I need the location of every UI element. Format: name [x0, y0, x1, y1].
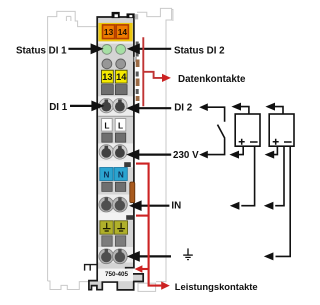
svg-text:13: 13 [104, 27, 114, 37]
svg-text:IN: IN [171, 200, 181, 211]
svg-text:N: N [103, 171, 109, 180]
svg-text:Status DI 1: Status DI 1 [16, 45, 67, 56]
svg-text:Leistungskontakte: Leistungskontakte [175, 281, 258, 292]
svg-text:Status DI 2: Status DI 2 [174, 45, 225, 56]
svg-text:14: 14 [118, 27, 128, 37]
svg-text:L: L [118, 121, 123, 131]
svg-text:Datenkontakte: Datenkontakte [178, 74, 246, 85]
svg-text:DI 2: DI 2 [174, 102, 193, 113]
svg-text:14: 14 [116, 72, 127, 82]
svg-text:DI 1: DI 1 [49, 102, 68, 113]
svg-text:N: N [118, 171, 124, 180]
svg-text:230 V: 230 V [173, 150, 199, 161]
svg-text:13: 13 [102, 72, 112, 82]
svg-text:L: L [104, 121, 109, 131]
svg-text:750-405: 750-405 [105, 271, 129, 278]
